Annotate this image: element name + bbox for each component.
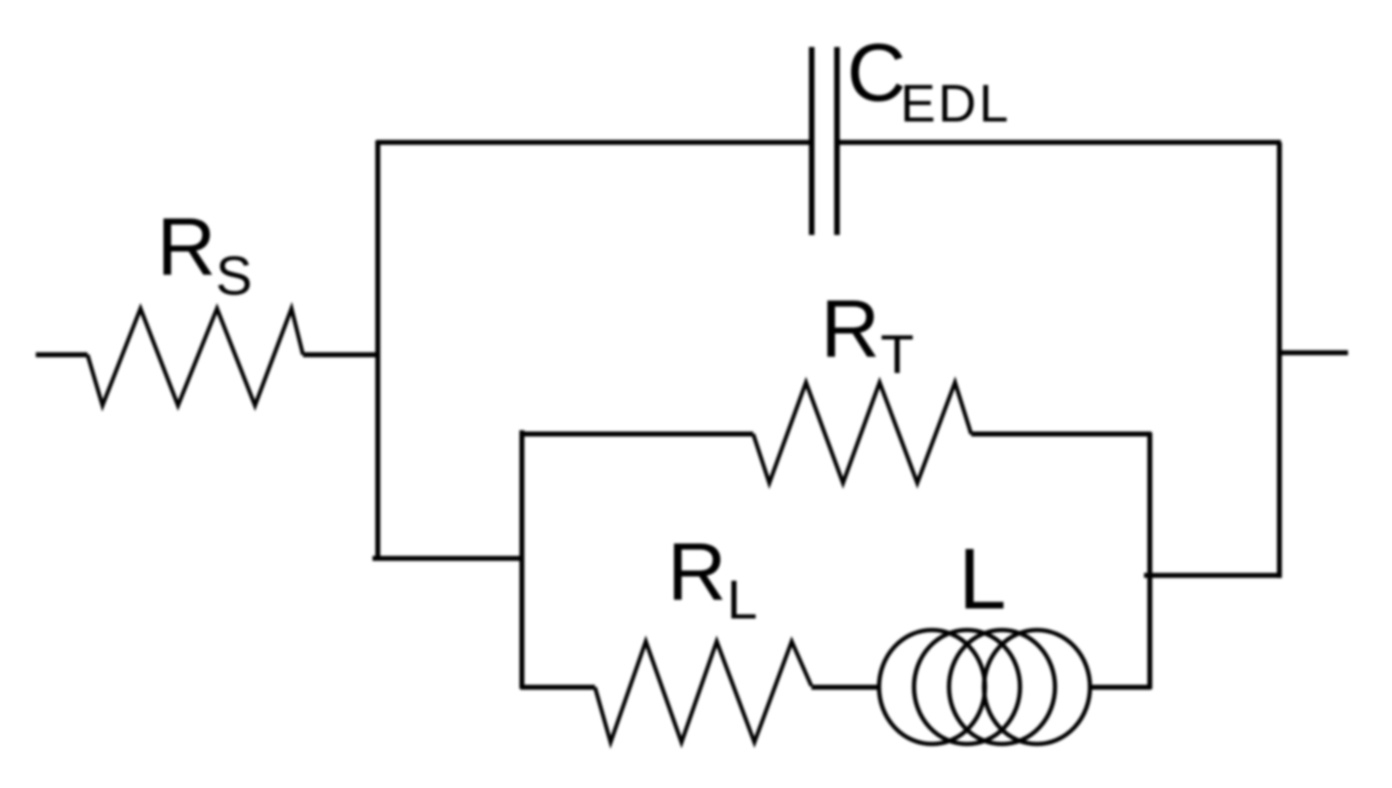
inductor L <box>879 630 1090 744</box>
wire inner box left vertical <box>519 430 524 689</box>
label R_L <box>667 527 757 631</box>
wire R_S to node A <box>303 352 379 357</box>
wire node A to inner box <box>373 556 524 561</box>
svg-text:R: R <box>157 202 216 293</box>
wire L to inner box right vertical <box>1091 685 1152 690</box>
node A vertical wire <box>375 141 380 560</box>
wire R_L left lead <box>520 685 595 690</box>
wire top rail left <box>376 140 811 145</box>
label L <box>959 532 1007 628</box>
wire top rail right <box>837 140 1281 145</box>
svg-text:C: C <box>847 28 906 119</box>
right terminal wire <box>1279 350 1348 355</box>
label R_T <box>821 284 914 385</box>
svg-text:L: L <box>727 569 758 631</box>
wire outer right vertical <box>1277 142 1282 578</box>
label R_S <box>157 202 252 306</box>
svg-text:R: R <box>667 527 726 618</box>
wire inner box right vertical <box>1147 433 1152 690</box>
capacitor C_EDL <box>812 47 837 235</box>
wire R_T right lead <box>971 432 1151 437</box>
wire inner box to outer right vertical <box>1144 573 1281 578</box>
wire R_L to L <box>811 685 879 690</box>
left terminal wire <box>36 352 88 357</box>
resistor R_T <box>753 382 971 483</box>
svg-text:T: T <box>880 323 914 385</box>
wire R_T left lead <box>520 432 753 437</box>
resistor R_S <box>88 309 304 406</box>
svg-text:R: R <box>821 284 880 375</box>
label C_EDL <box>847 28 1011 134</box>
svg-text:L: L <box>959 532 1007 628</box>
svg-text:S: S <box>216 244 253 306</box>
svg-text:EDL: EDL <box>900 75 1011 134</box>
resistor R_L <box>595 641 811 742</box>
